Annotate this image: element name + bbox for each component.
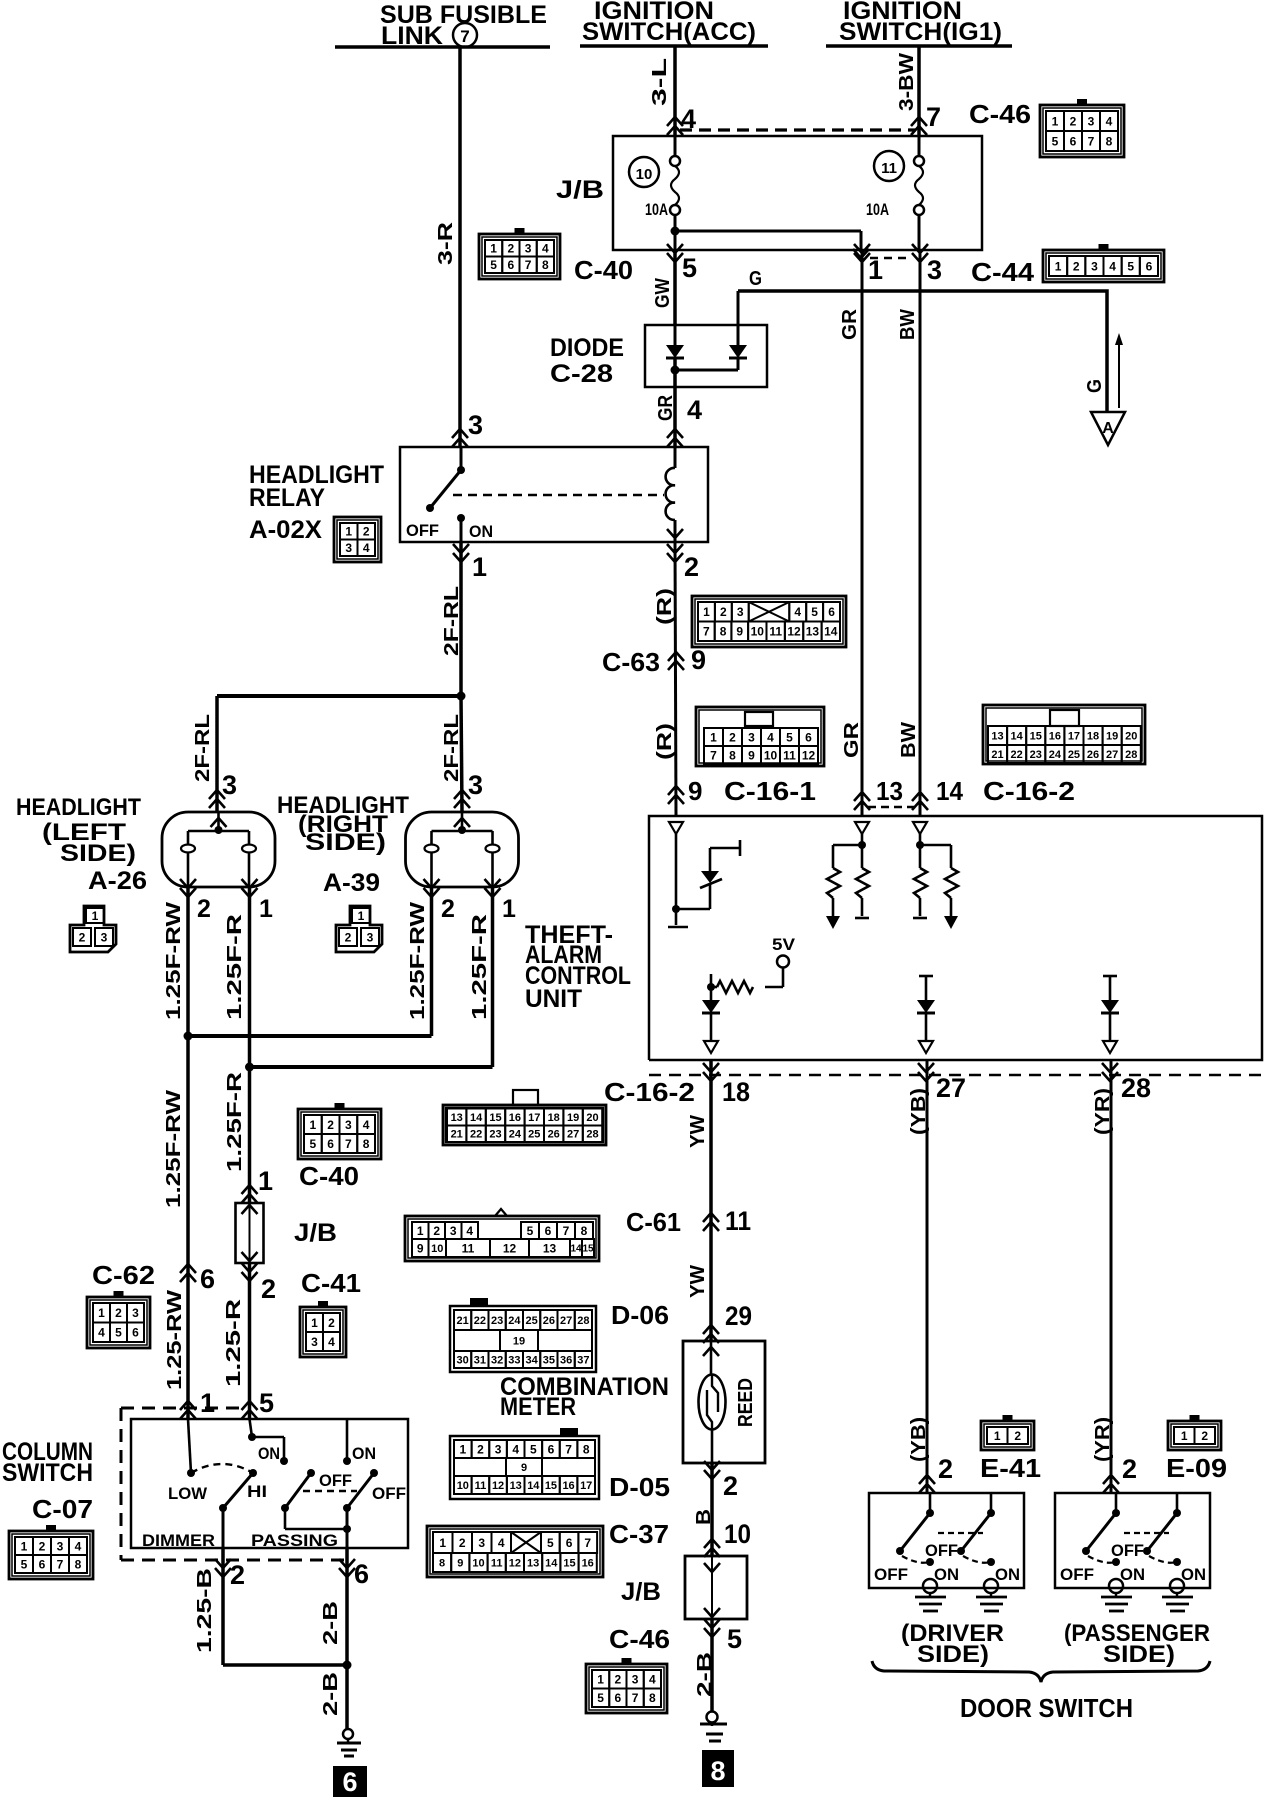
svg-text:14: 14	[936, 776, 964, 806]
diode at output 28	[1103, 975, 1117, 978]
passing switch 1 arm	[307, 1469, 315, 1477]
svg-text:C-40: C-40	[574, 255, 633, 285]
svg-text:6: 6	[508, 258, 515, 272]
svg-text:1: 1	[258, 1166, 273, 1196]
svg-text:31: 31	[474, 1354, 486, 1366]
svg-text:8: 8	[583, 1442, 590, 1456]
svg-text:10: 10	[457, 1480, 469, 1492]
relay coil	[674, 447, 677, 468]
connector E-41	[981, 1421, 1034, 1450]
svg-text:(R): (R)	[654, 723, 676, 760]
svg-text:12: 12	[509, 1557, 521, 1569]
output pin 27	[918, 1063, 934, 1081]
svg-text:1: 1	[472, 552, 487, 582]
svg-text:2: 2	[508, 242, 515, 256]
svg-text:9: 9	[521, 1462, 527, 1474]
svg-text:22: 22	[470, 1129, 482, 1141]
connector C-40 mid	[298, 1109, 381, 1159]
svg-text:1: 1	[98, 1306, 105, 1320]
svg-text:15: 15	[582, 1244, 594, 1255]
svg-text:1: 1	[21, 1539, 28, 1553]
svg-text:1.25F-RW: 1.25F-RW	[163, 1090, 185, 1208]
svg-text:7: 7	[525, 258, 532, 272]
wire (YB) to driver door switch	[926, 1060, 929, 1493]
svg-text:28: 28	[586, 1129, 598, 1141]
svg-text:14: 14	[1011, 730, 1024, 742]
svg-text:ON: ON	[934, 1565, 959, 1584]
svg-text:8: 8	[1106, 134, 1113, 148]
headlight bulb A-39	[406, 812, 519, 887]
svg-text:5: 5	[682, 253, 697, 283]
svg-text:3: 3	[927, 255, 942, 285]
svg-text:2: 2	[363, 525, 370, 539]
svg-text:34: 34	[526, 1354, 539, 1366]
svg-text:6: 6	[327, 1137, 334, 1151]
svg-text:12: 12	[787, 625, 801, 639]
svg-text:13: 13	[876, 776, 903, 806]
svg-text:3: 3	[737, 605, 744, 619]
svg-text:4: 4	[512, 1442, 519, 1456]
svg-text:36: 36	[560, 1354, 572, 1366]
svg-text:2: 2	[459, 1536, 466, 1550]
svg-text:10: 10	[431, 1243, 443, 1255]
svg-text:LOW: LOW	[168, 1484, 208, 1503]
resistor pair at pin 13	[861, 832, 864, 845]
svg-text:GW: GW	[652, 278, 674, 308]
svg-text:5: 5	[115, 1326, 122, 1340]
dimmer switch LOW contact	[188, 1419, 191, 1473]
relay switch	[460, 447, 463, 470]
reed contacts	[712, 1375, 718, 1412]
svg-text:15: 15	[1030, 730, 1042, 742]
svg-text:1.25F-R: 1.25F-R	[224, 1071, 246, 1172]
connector A-26 symbol	[70, 906, 116, 952]
theft-alarm control unit box	[649, 816, 1262, 1060]
J/B exit pin 5 GW	[667, 244, 683, 262]
svg-text:8: 8	[439, 1557, 445, 1569]
dashed connector line C-44 pins 1-3	[870, 257, 912, 260]
svg-text:C-40: C-40	[299, 1161, 359, 1191]
svg-text:5: 5	[727, 1624, 742, 1654]
svg-text:C-41: C-41	[301, 1268, 361, 1298]
bus wire R junction	[250, 1065, 493, 1069]
svg-text:RELAY: RELAY	[249, 484, 325, 512]
svg-text:2: 2	[723, 1471, 738, 1501]
svg-text:4: 4	[466, 1224, 473, 1238]
svg-text:1: 1	[994, 1429, 1001, 1443]
relay exit pin 2	[667, 544, 683, 562]
svg-text:3: 3	[495, 1442, 502, 1456]
svg-text:24: 24	[509, 1129, 522, 1141]
ground at column switch	[343, 1729, 353, 1739]
svg-text:2: 2	[1014, 1429, 1021, 1443]
wire 2F-RL relay to junction	[459, 542, 463, 696]
wire 2F-RL left branch	[215, 696, 219, 812]
svg-text:1: 1	[200, 1388, 215, 1418]
passing output junction	[284, 1508, 287, 1529]
svg-text:20: 20	[1125, 730, 1137, 742]
svg-text:3-R: 3-R	[435, 221, 457, 265]
svg-text:C-16-1: C-16-1	[724, 776, 816, 806]
svg-text:9: 9	[736, 625, 743, 639]
svg-text:GR: GR	[839, 308, 861, 340]
svg-text:ON: ON	[1181, 1565, 1206, 1584]
svg-text:1: 1	[710, 730, 717, 744]
svg-text:2: 2	[477, 1442, 484, 1456]
headlight relay A-02X box	[400, 447, 708, 542]
junction block J/B	[613, 136, 982, 250]
svg-text:16: 16	[509, 1112, 521, 1124]
svg-text:27: 27	[936, 1073, 966, 1103]
svg-text:6: 6	[545, 1224, 552, 1238]
svg-text:4: 4	[1106, 114, 1113, 128]
svg-text:16: 16	[582, 1557, 594, 1569]
svg-text:9: 9	[748, 748, 755, 762]
svg-text:5: 5	[1052, 134, 1059, 148]
junction of 2F-RL branch	[217, 694, 461, 698]
svg-text:4: 4	[363, 1118, 370, 1132]
svg-text:23: 23	[1030, 749, 1042, 761]
svg-text:GR: GR	[655, 395, 677, 421]
svg-text:2: 2	[684, 552, 699, 582]
wire 5 junction to passing ON	[250, 1419, 253, 1437]
svg-text:2: 2	[115, 1306, 122, 1320]
svg-text:10: 10	[636, 166, 653, 183]
svg-text:3: 3	[1091, 259, 1098, 273]
svg-text:1: 1	[597, 1673, 604, 1687]
svg-text:C-16-2: C-16-2	[604, 1077, 695, 1107]
svg-text:5: 5	[490, 258, 497, 272]
svg-text:DOOR SWITCH: DOOR SWITCH	[960, 1693, 1133, 1723]
svg-text:25: 25	[526, 1315, 538, 1327]
svg-text:7: 7	[584, 1536, 591, 1550]
svg-text:28: 28	[1121, 1073, 1151, 1103]
wire YW from pin 18	[709, 1060, 713, 1341]
svg-text:G: G	[749, 268, 762, 290]
svg-text:DIMMER: DIMMER	[142, 1531, 215, 1550]
svg-text:B: B	[693, 1509, 715, 1525]
svg-text:2F-RL: 2F-RL	[192, 714, 214, 782]
svg-text:DIODE: DIODE	[550, 334, 624, 362]
svg-text:6: 6	[200, 1264, 215, 1294]
passenger side door switch	[1055, 1493, 1210, 1588]
arrow up on ground lead	[1118, 342, 1120, 408]
svg-text:OFF: OFF	[406, 521, 439, 540]
svg-text:3: 3	[132, 1306, 139, 1320]
zener sensor assembly	[675, 834, 678, 925]
connector D-05	[450, 1436, 599, 1499]
connector C-40 top	[479, 234, 560, 279]
svg-text:1: 1	[459, 1442, 466, 1456]
svg-text:28: 28	[577, 1315, 589, 1327]
svg-text:10: 10	[764, 748, 778, 762]
svg-text:5: 5	[786, 730, 793, 744]
svg-text:2: 2	[79, 930, 86, 944]
svg-text:4: 4	[75, 1539, 82, 1553]
svg-text:15: 15	[545, 1480, 557, 1492]
diode at output 18	[702, 1000, 720, 1013]
svg-text:8: 8	[720, 625, 727, 639]
svg-text:7: 7	[926, 102, 941, 132]
svg-text:3: 3	[345, 1118, 352, 1132]
svg-text:2-B: 2-B	[320, 1601, 342, 1645]
fuse exit pin 2	[242, 1263, 258, 1281]
svg-text:J/B: J/B	[621, 1578, 661, 1606]
svg-text:6: 6	[548, 1442, 555, 1456]
svg-text:14: 14	[824, 625, 838, 639]
svg-text:24: 24	[1049, 749, 1062, 761]
wire 3-L from ignition switch ACC	[673, 46, 677, 136]
svg-text:E-41: E-41	[980, 1453, 1041, 1483]
svg-text:12: 12	[503, 1241, 517, 1255]
reed switch box	[683, 1341, 765, 1463]
svg-text:22: 22	[1011, 749, 1023, 761]
svg-text:A: A	[1102, 420, 1114, 437]
svg-text:17: 17	[528, 1112, 540, 1124]
ground reference box 8	[702, 1750, 734, 1787]
svg-text:2: 2	[327, 1118, 334, 1132]
svg-text:2: 2	[197, 895, 211, 923]
svg-text:6: 6	[615, 1691, 622, 1705]
column switch exit pin 2	[215, 1559, 231, 1577]
svg-text:12: 12	[802, 748, 816, 762]
connector A-02X	[334, 517, 381, 562]
svg-text:3: 3	[222, 770, 237, 800]
svg-text:1.25F-R: 1.25F-R	[224, 913, 246, 1020]
svg-text:24: 24	[508, 1315, 521, 1327]
svg-text:3: 3	[367, 930, 374, 944]
svg-text:6: 6	[828, 605, 835, 619]
svg-text:C-44: C-44	[971, 257, 1035, 287]
svg-text:8: 8	[710, 1756, 725, 1786]
svg-text:1.25-B: 1.25-B	[194, 1568, 216, 1653]
svg-text:2: 2	[720, 605, 727, 619]
svg-text:13: 13	[451, 1112, 463, 1124]
svg-text:7: 7	[565, 1442, 572, 1456]
svg-text:15: 15	[489, 1112, 501, 1124]
svg-text:3: 3	[57, 1539, 64, 1553]
svg-text:5: 5	[547, 1536, 554, 1550]
svg-text:3: 3	[468, 410, 483, 440]
svg-text:21: 21	[457, 1315, 469, 1327]
svg-text:19: 19	[1106, 730, 1118, 742]
svg-text:SWITCH(ACC): SWITCH(ACC)	[582, 18, 756, 46]
svg-text:3: 3	[450, 1224, 457, 1238]
passing switch 2	[346, 1419, 349, 1461]
svg-text:(YB): (YB)	[908, 1088, 930, 1135]
wire 1.25F-RW down to column switch	[186, 1036, 190, 1419]
svg-text:11: 11	[491, 1557, 503, 1569]
svg-text:2: 2	[1201, 1429, 1208, 1443]
svg-text:10: 10	[751, 625, 765, 639]
ground at wire 8	[707, 1712, 718, 1723]
diode at output 27	[919, 975, 933, 978]
svg-text:9: 9	[691, 645, 706, 675]
svg-text:10A: 10A	[866, 200, 889, 219]
J/B exit pin 1 GR wire	[854, 244, 870, 262]
dimmer dashed arc	[191, 1464, 253, 1473]
svg-text:37: 37	[577, 1354, 589, 1366]
svg-text:C-07: C-07	[32, 1494, 93, 1524]
svg-text:UNIT: UNIT	[525, 985, 582, 1013]
svg-text:25: 25	[528, 1129, 540, 1141]
svg-text:YW: YW	[687, 1115, 709, 1148]
svg-text:3: 3	[1088, 114, 1095, 128]
svg-text:A-39: A-39	[323, 869, 380, 897]
svg-text:1: 1	[502, 895, 516, 923]
resistor pair at pin 14	[919, 832, 922, 845]
svg-text:SIDE): SIDE)	[1103, 1641, 1175, 1668]
svg-text:1: 1	[490, 242, 497, 256]
svg-text:1: 1	[345, 525, 352, 539]
entry pin 9 theft alarm	[668, 786, 684, 804]
svg-text:35: 35	[543, 1354, 555, 1366]
svg-text:23: 23	[489, 1129, 501, 1141]
connector C-16-1	[696, 707, 824, 766]
svg-text:10: 10	[724, 1519, 751, 1549]
svg-text:4: 4	[649, 1673, 656, 1687]
svg-text:8: 8	[542, 258, 549, 272]
svg-text:10: 10	[472, 1557, 484, 1569]
svg-text:18: 18	[1087, 730, 1099, 742]
svg-text:4: 4	[542, 242, 549, 256]
svg-text:OFF: OFF	[319, 1471, 352, 1490]
svg-text:4: 4	[687, 395, 702, 425]
svg-text:6: 6	[805, 730, 812, 744]
wire (YR) to passenger door switch	[1110, 1060, 1113, 1493]
connector C-16-2 mid	[443, 1105, 606, 1145]
svg-text:SWITCH: SWITCH	[2, 1459, 93, 1487]
svg-text:J/B: J/B	[294, 1219, 337, 1247]
svg-text:6: 6	[354, 1559, 369, 1589]
svg-text:2: 2	[938, 1454, 953, 1484]
svg-text:C-46: C-46	[969, 99, 1031, 129]
svg-text:1: 1	[703, 605, 710, 619]
svg-text:13: 13	[510, 1480, 522, 1492]
svg-text:21: 21	[991, 749, 1003, 761]
dimmer switch arm	[223, 1473, 253, 1508]
svg-text:3: 3	[748, 730, 755, 744]
svg-text:3-BW: 3-BW	[896, 53, 918, 111]
svg-text:27: 27	[1106, 749, 1118, 761]
svg-text:5: 5	[259, 1388, 274, 1418]
fuse 11 10A	[874, 151, 904, 181]
svg-text:8: 8	[363, 1137, 370, 1151]
svg-text:SIDE): SIDE)	[917, 1641, 989, 1668]
svg-text:1: 1	[311, 1316, 318, 1330]
svg-text:A-02X: A-02X	[249, 516, 322, 544]
svg-text:8: 8	[581, 1224, 588, 1238]
connector C-61	[405, 1216, 599, 1261]
svg-text:14: 14	[545, 1557, 558, 1569]
svg-text:D-05: D-05	[609, 1472, 670, 1502]
svg-text:2: 2	[615, 1673, 622, 1687]
relay contact entry pin 3	[452, 429, 468, 447]
svg-text:7: 7	[345, 1137, 352, 1151]
svg-text:1.25F-R: 1.25F-R	[469, 913, 491, 1020]
svg-text:7: 7	[57, 1557, 64, 1571]
svg-text:4: 4	[328, 1335, 335, 1349]
svg-text:3: 3	[525, 242, 532, 256]
svg-text:5V: 5V	[772, 935, 796, 954]
connector C-46 bottom	[586, 1664, 667, 1713]
svg-text:7: 7	[460, 27, 469, 46]
reed exit pin 2	[704, 1461, 720, 1479]
svg-text:C-62: C-62	[92, 1260, 155, 1290]
svg-text:27: 27	[567, 1129, 579, 1141]
svg-text:2: 2	[1122, 1454, 1137, 1484]
svg-text:13: 13	[806, 625, 820, 639]
svg-text:28: 28	[1125, 749, 1137, 761]
svg-text:2F-RL: 2F-RL	[441, 586, 463, 656]
svg-text:6: 6	[342, 1767, 357, 1797]
wire 1.25F-R down to fuse	[248, 1067, 252, 1203]
svg-text:1: 1	[259, 895, 273, 923]
headlight left pin 2 wire 1.25F-RW	[186, 887, 190, 1036]
diode C-28 box	[645, 325, 767, 387]
svg-text:4: 4	[794, 605, 801, 619]
svg-text:17: 17	[580, 1480, 592, 1492]
svg-text:ON: ON	[352, 1444, 376, 1463]
svg-text:4: 4	[1109, 259, 1116, 273]
wire junction inside J/B	[671, 227, 680, 236]
junction dot in diode box	[671, 366, 680, 375]
svg-text:2: 2	[1073, 259, 1080, 273]
svg-text:HEADLIGHT: HEADLIGHT	[16, 794, 141, 821]
svg-text:7: 7	[710, 748, 717, 762]
driver side door switch	[869, 1493, 1024, 1588]
svg-text:(YR): (YR)	[1092, 1417, 1114, 1462]
junction dot at output 18	[707, 983, 715, 991]
svg-text:10A: 10A	[645, 200, 668, 219]
dimmer switch HI contact	[249, 1469, 257, 1477]
svg-text:8: 8	[75, 1557, 82, 1571]
svg-text:29: 29	[725, 1301, 752, 1331]
connector D-06	[450, 1306, 596, 1372]
input triangle pin 13	[855, 822, 869, 834]
svg-text:OFF: OFF	[874, 1565, 908, 1584]
svg-text:2-B: 2-B	[320, 1672, 342, 1716]
svg-text:1: 1	[358, 909, 365, 923]
svg-text:6: 6	[132, 1326, 139, 1340]
wire 3-R from sub fusible link	[458, 47, 462, 447]
svg-text:11: 11	[462, 1241, 475, 1255]
svg-text:14: 14	[570, 1244, 582, 1255]
svg-text:5: 5	[811, 605, 818, 619]
svg-text:11: 11	[725, 1206, 751, 1236]
svg-text:19: 19	[513, 1335, 525, 1347]
svg-text:14: 14	[527, 1480, 540, 1492]
svg-text:ON: ON	[1120, 1565, 1145, 1584]
resistor to 5V	[717, 981, 753, 993]
svg-text:13: 13	[527, 1557, 539, 1569]
svg-text:3: 3	[632, 1673, 639, 1687]
svg-text:5: 5	[1127, 259, 1134, 273]
svg-text:32: 32	[491, 1354, 503, 1366]
connector E-09	[1168, 1421, 1221, 1450]
svg-text:1: 1	[1055, 259, 1062, 273]
bus wire RW junction	[188, 1034, 432, 1038]
svg-text:1.25F-RW: 1.25F-RW	[407, 902, 429, 1020]
wire (R) relay pin2 to theft alarm unit	[675, 542, 676, 816]
diode 2 (G branch)	[737, 291, 740, 345]
svg-text:3: 3	[311, 1335, 318, 1349]
svg-text:J/B: J/B	[556, 176, 604, 204]
svg-text:2: 2	[261, 1274, 276, 1304]
svg-text:7: 7	[703, 625, 710, 639]
svg-text:22: 22	[474, 1315, 486, 1327]
svg-text:PASSING: PASSING	[251, 1531, 338, 1550]
